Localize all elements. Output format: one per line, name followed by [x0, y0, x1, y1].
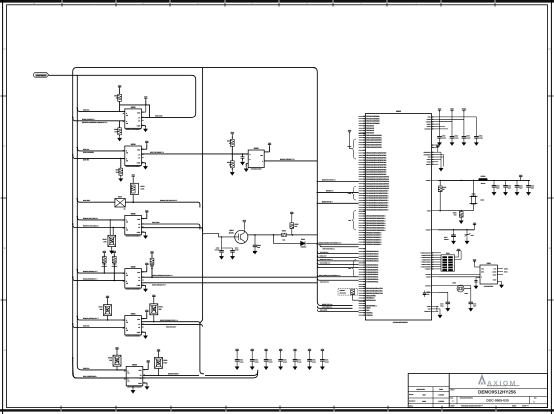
svg-text:VDDA: VDDA: [462, 108, 468, 111]
net BKGD_FROM_TST: [264, 160, 317, 162]
svg-text:C505: C505: [508, 185, 512, 187]
svg-text:C514: C514: [440, 303, 444, 305]
svg-text:CANH: CANH: [492, 271, 496, 273]
gate wire: [203, 233, 239, 237]
net OSC_IN: [77, 108, 125, 112]
svg-text:OSC_IN: OSC_IN: [83, 367, 90, 370]
svg-text:BDM2_FROM_TGT: BDM2_FROM_TGT: [83, 270, 99, 273]
reset pullup near MCU: [338, 288, 357, 295]
cap C510: [254, 235, 256, 245]
svg-text:CANL: CANL: [492, 274, 496, 276]
svg-text:(PNP): (PNP): [229, 232, 234, 235]
svg-text:Size: Size: [450, 398, 453, 400]
capacitor C526: [321, 351, 324, 353]
jumper R515: [115, 198, 125, 207]
svg-text:4MHz: 4MHz: [465, 293, 469, 295]
svg-text:B: B: [4, 247, 6, 250]
capacitor C501: [450, 137, 455, 139]
svg-text:R505: R505: [294, 223, 298, 226]
svg-text:R515: R515: [118, 195, 122, 198]
MCU right power pins: [424, 116, 438, 131]
resistor R508: [439, 180, 441, 186]
subcircuit 6: [72, 108, 548, 408]
gnd U506: [141, 231, 145, 233]
svg-text:AXIOM: AXIOM: [487, 380, 517, 387]
pullups R512 R513: [103, 253, 106, 255]
capacitor C521: [251, 351, 254, 353]
buffer IC U508: [72, 250, 317, 292]
capacitor C504: [493, 180, 495, 185]
svg-text:RXCAN: RXCAN: [426, 274, 431, 276]
gnd U510: [141, 331, 145, 333]
svg-text:PJ7/KWJ7/SCL: PJ7/KWJ7/SCL: [366, 280, 379, 283]
off-page connector KILL_SW: [34, 73, 49, 78]
svg-text:Rev: Rev: [534, 398, 537, 400]
buffer IC U502: [72, 84, 164, 140]
resistor R505: [231, 134, 234, 136]
svg-text:DATA_FROM_TGT: DATA_FROM_TGT: [83, 278, 99, 281]
svg-text:OSC_IN: OSC_IN: [83, 109, 90, 112]
svg-text:TGT_RX: TGT_RX: [83, 325, 91, 328]
svg-text:A: A: [4, 349, 6, 352]
svg-text:R506: R506: [282, 229, 286, 232]
resistor R504: [230, 161, 234, 168]
svg-text:PS4/RXD4/SCK: PS4/RXD4/SCK: [366, 260, 379, 263]
svg-text:C: C: [452, 400, 454, 403]
svg-text:CANH: CANH: [504, 268, 508, 270]
buffer IC U512: [72, 346, 199, 393]
svg-text:22pF: 22pF: [440, 305, 443, 307]
svg-text:1-2009: 1-2009: [438, 394, 443, 397]
svg-text:D: D: [4, 48, 6, 51]
resistor R516 network: [109, 220, 111, 235]
vdd U502: [144, 98, 147, 100]
net BDM_TO_TGT_PWR: [125, 202, 200, 207]
svg-text:C507: C507: [531, 185, 535, 187]
resistor R514: [132, 176, 135, 178]
svg-text:KILL_SWITCHED: KILL_SWITCHED: [83, 375, 97, 378]
buffer IC U504: [72, 140, 248, 181]
bundle rows B: [317, 252, 358, 254]
svg-text:DOC-0505-030: DOC-0505-030: [486, 399, 509, 403]
svg-text:BDM2_TO_TGT_PWR: BDM2_TO_TGT_PWR: [160, 199, 178, 202]
capacitor C502: [462, 137, 467, 139]
svg-text:OUT1_FROM_TGT_RX: OUT1_FROM_TGT_RX: [160, 319, 179, 322]
series resistor R506: [282, 233, 287, 236]
svg-text:R514: R514: [141, 185, 145, 188]
svg-text:TXCAN: TXCAN: [426, 277, 431, 279]
capacitor C503: [474, 137, 479, 139]
capacitor C522: [264, 351, 267, 353]
bundle rows C: [317, 275, 358, 277]
svg-text:0.1uF: 0.1uF: [235, 249, 239, 251]
vdd Q501: [243, 222, 246, 224]
resistor R503 pull-up: [118, 87, 121, 89]
cap C508: [423, 291, 430, 298]
svg-text:C: C: [549, 145, 551, 148]
bypass caps row: [235, 348, 329, 370]
svg-text:PAD05/AN05/KW05: PAD05/AN05/KW05: [366, 146, 382, 149]
net A_D_TO_BDM long wire: [141, 153, 248, 155]
svg-text:22pF: 22pF: [473, 305, 476, 307]
svg-text:A: A: [549, 349, 551, 352]
svg-text:0.47uF: 0.47uF: [215, 249, 220, 251]
cap C509: [232, 153, 248, 155]
capacitor C523: [279, 351, 282, 353]
resistor R511 pull-down: [120, 158, 122, 168]
net A_D2: [73, 155, 125, 159]
brace PAD: [348, 260, 356, 278]
bus B vertical: [77, 75, 126, 370]
resistor R507 pull-down: [119, 121, 121, 128]
pullup right R514b: [150, 253, 153, 255]
svg-text:A/D_RX2: A/D_RX2: [83, 199, 90, 202]
MCU right gnd pins: [424, 305, 442, 318]
buffer IC U506: [72, 209, 203, 253]
svg-text:TGT_RXD: TGT_RXD: [152, 221, 161, 224]
AXIOM logo: [478, 374, 486, 385]
svg-text:U501: U501: [487, 262, 491, 265]
wires to MCU left: [317, 179, 359, 312]
svg-text:BDM2_TO_TGT_IN: BDM2_TO_TGT_IN: [83, 217, 99, 220]
svg-text:PM5/RXCAN/MOSI: PM5/RXCAN/MOSI: [366, 243, 382, 246]
svg-text:C515: C515: [473, 303, 477, 305]
vdd U503: [268, 145, 271, 147]
title block: [408, 374, 547, 408]
brace PWM: [348, 187, 356, 201]
doc row: [449, 396, 547, 403]
power rails to caps: [437, 108, 483, 146]
caps C514 C515: [446, 302, 451, 304]
pullup right R520: [157, 351, 160, 353]
capacitor C525: [308, 351, 311, 353]
capacitor C524: [293, 351, 296, 353]
svg-text:Approvals: Approvals: [416, 388, 424, 391]
vdd U504: [145, 143, 148, 145]
middle bus vertical: [200, 68, 204, 374]
svg-text:18pF: 18pF: [508, 187, 511, 189]
vdd U510: [145, 312, 148, 314]
svg-text:SN74LVC2G06DCT: SN74LVC2G06DCT: [125, 165, 142, 168]
MCU U500: [365, 110, 431, 324]
bottom bundle: [322, 303, 331, 306]
jumper block J500: [420, 248, 461, 271]
IC U501: [426, 258, 508, 288]
capacitor C507: [528, 180, 530, 185]
svg-text:U500: U500: [396, 110, 402, 113]
svg-text:18pF: 18pF: [519, 187, 522, 189]
svg-text:TXD: TXD: [481, 268, 484, 270]
out wire: [143, 374, 199, 376]
capacitor C520: [235, 351, 238, 353]
MCU right serial pins: [423, 144, 443, 171]
svg-text:C504: C504: [496, 185, 500, 187]
svg-text:R521 10K: R521 10K: [340, 293, 347, 295]
extra right stubs: [432, 144, 439, 146]
svg-text:A/D_TX: A/D_TX: [83, 148, 90, 151]
svg-text:BKGD_FROM_TST: BKGD_FROM_TST: [280, 158, 296, 161]
vdd rail: [519, 177, 522, 179]
svg-text:VSSPLL: VSSPLL: [366, 314, 374, 317]
title row: [449, 387, 547, 389]
svg-text:SN74LVC2G06DCT: SN74LVC2G06DCT: [125, 335, 142, 338]
svg-text:18pF: 18pF: [496, 187, 499, 189]
bar breaks: [61, 0, 64, 3]
svg-text:OSC_OUT: OSC_OUT: [155, 115, 164, 118]
crystal Y500: [471, 196, 475, 204]
svg-text:SN74LVC2G06DCT: SN74LVC2G06DCT: [125, 288, 142, 291]
net B label: [253, 252, 254, 253]
LED D501 branch: [274, 211, 318, 249]
svg-text:B: B: [549, 247, 551, 250]
gnd U502: [141, 125, 145, 127]
right bus of mid box: [313, 68, 352, 306]
wire offpage to right bus: [49, 75, 196, 117]
svg-text:D501: D501: [301, 238, 305, 241]
crystal Y501 circuit: [425, 282, 476, 312]
svg-text:BDM2_RESET: BDM2_RESET: [168, 372, 180, 375]
approvals table: [408, 387, 449, 408]
vdd U508: [145, 265, 148, 267]
drain wire SW_VDD: [243, 235, 245, 243]
gnd U508: [141, 284, 145, 286]
ferrite FB500: [479, 178, 488, 181]
resistor R509: [460, 180, 462, 210]
buffer IC U510: [72, 294, 179, 339]
svg-text:CMW: CMW: [422, 400, 427, 403]
net TGT out: [141, 224, 200, 230]
svg-text:D: D: [533, 400, 535, 403]
LED wire: [274, 235, 318, 250]
svg-text:SN74LVC2G06DCT: SN74LVC2G06DCT: [125, 128, 142, 131]
svg-text:PC8/ADDR24/DATA24/RW8: PC8/ADDR24/DATA24/RW8: [366, 209, 388, 212]
U503 circuit: [227, 131, 317, 175]
xtal wire: [438, 210, 473, 212]
out wires: [141, 276, 317, 278]
middle bus exit wires: [145, 322, 200, 324]
svg-text:A/D_TO_BDM_TX: A/D_TO_BDM_TX: [150, 151, 165, 154]
net A_D_TX: [77, 147, 125, 151]
svg-text:MC9S12GC32CFU: MC9S12GC32CFU: [393, 321, 409, 324]
svg-text:1-2009: 1-2009: [438, 400, 443, 403]
brace KEY: [348, 211, 356, 231]
svg-text:Date: Date: [439, 388, 443, 391]
transistor Q501: [203, 219, 318, 259]
svg-text:CANL: CANL: [504, 271, 508, 273]
date row: [449, 403, 547, 405]
brace VDDX: [347, 129, 356, 159]
out wires: [141, 321, 144, 323]
svg-text:SN74LVC2G06DCT: SN74LVC2G06DCT: [127, 386, 144, 389]
svg-text:CAP: CAP: [427, 294, 430, 296]
svg-text:C508: C508: [427, 292, 431, 294]
gnd U503: [246, 163, 248, 165]
svg-text:PE7/XCLKS: PE7/XCLKS: [366, 299, 377, 302]
subcircuit 7: [72, 108, 548, 408]
wire top rail: [73, 68, 316, 378]
caps C511 C512: [219, 251, 224, 253]
subcircuit 4: [72, 108, 548, 408]
EXTAL XTAL crystal circuit: [426, 174, 535, 224]
svg-text:BDM2_FROM_TGT2: BDM2_FROM_TGT2: [83, 317, 99, 320]
net BDM_CONTROL: [73, 117, 125, 121]
svg-text:S: S: [481, 276, 482, 278]
vdd U512: [147, 362, 150, 364]
svg-text:OUT0_FROM_TGT_BKGD: OUT0_FROM_TGT_BKGD: [152, 274, 173, 277]
capacitor C506: [516, 180, 518, 185]
vdd U506: [145, 212, 148, 214]
svg-text:PWBDT3: PWBDT3: [425, 269, 431, 271]
bundle rows A: [317, 242, 358, 244]
subcircuit 1: [72, 84, 548, 407]
svg-text:C506: C506: [519, 185, 523, 187]
svg-text:EXTAL2: EXTAL2: [425, 285, 431, 287]
svg-text:A/D_RX: A/D_RX: [83, 158, 90, 161]
svg-text:C: C: [4, 145, 6, 148]
capacitor C500: [437, 137, 442, 139]
svg-text:RESET_TO_TGT_IO: RESET_TO_TGT_IO: [83, 225, 100, 228]
svg-text:VCC: VCC: [493, 268, 496, 270]
svg-text:OSC_OUT2: OSC_OUT2: [36, 74, 46, 77]
cap near U501: [476, 277, 480, 279]
svg-text:BDM_CONTROL: BDM_CONTROL: [82, 118, 95, 121]
LED symbol D501: [301, 241, 305, 245]
svg-text:C513: C513: [471, 235, 475, 237]
svg-text:D: D: [549, 48, 551, 51]
gnd U504: [141, 162, 145, 164]
svg-text:VREF: VREF: [492, 279, 496, 281]
subcircuit 3 jumper: [77, 174, 200, 211]
subcircuit 5: [72, 108, 548, 408]
net OSC_OUT: [141, 116, 144, 118]
pullup right R518: [152, 297, 155, 299]
svg-text:18pF: 18pF: [531, 187, 534, 189]
RESET circuit: [426, 222, 477, 244]
svg-text:RXD: RXD: [481, 271, 484, 273]
capacitor C505: [505, 180, 507, 185]
gnd U512: [143, 382, 147, 384]
loop wire over IC: [120, 105, 150, 118]
MCU left pins: [359, 115, 390, 317]
svg-text:SN74LVC2G06DCT: SN74LVC2G06DCT: [125, 235, 142, 238]
svg-text:DEMO9S12HY256: DEMO9S12HY256: [478, 389, 516, 394]
subcircuit 2: [72, 108, 548, 408]
